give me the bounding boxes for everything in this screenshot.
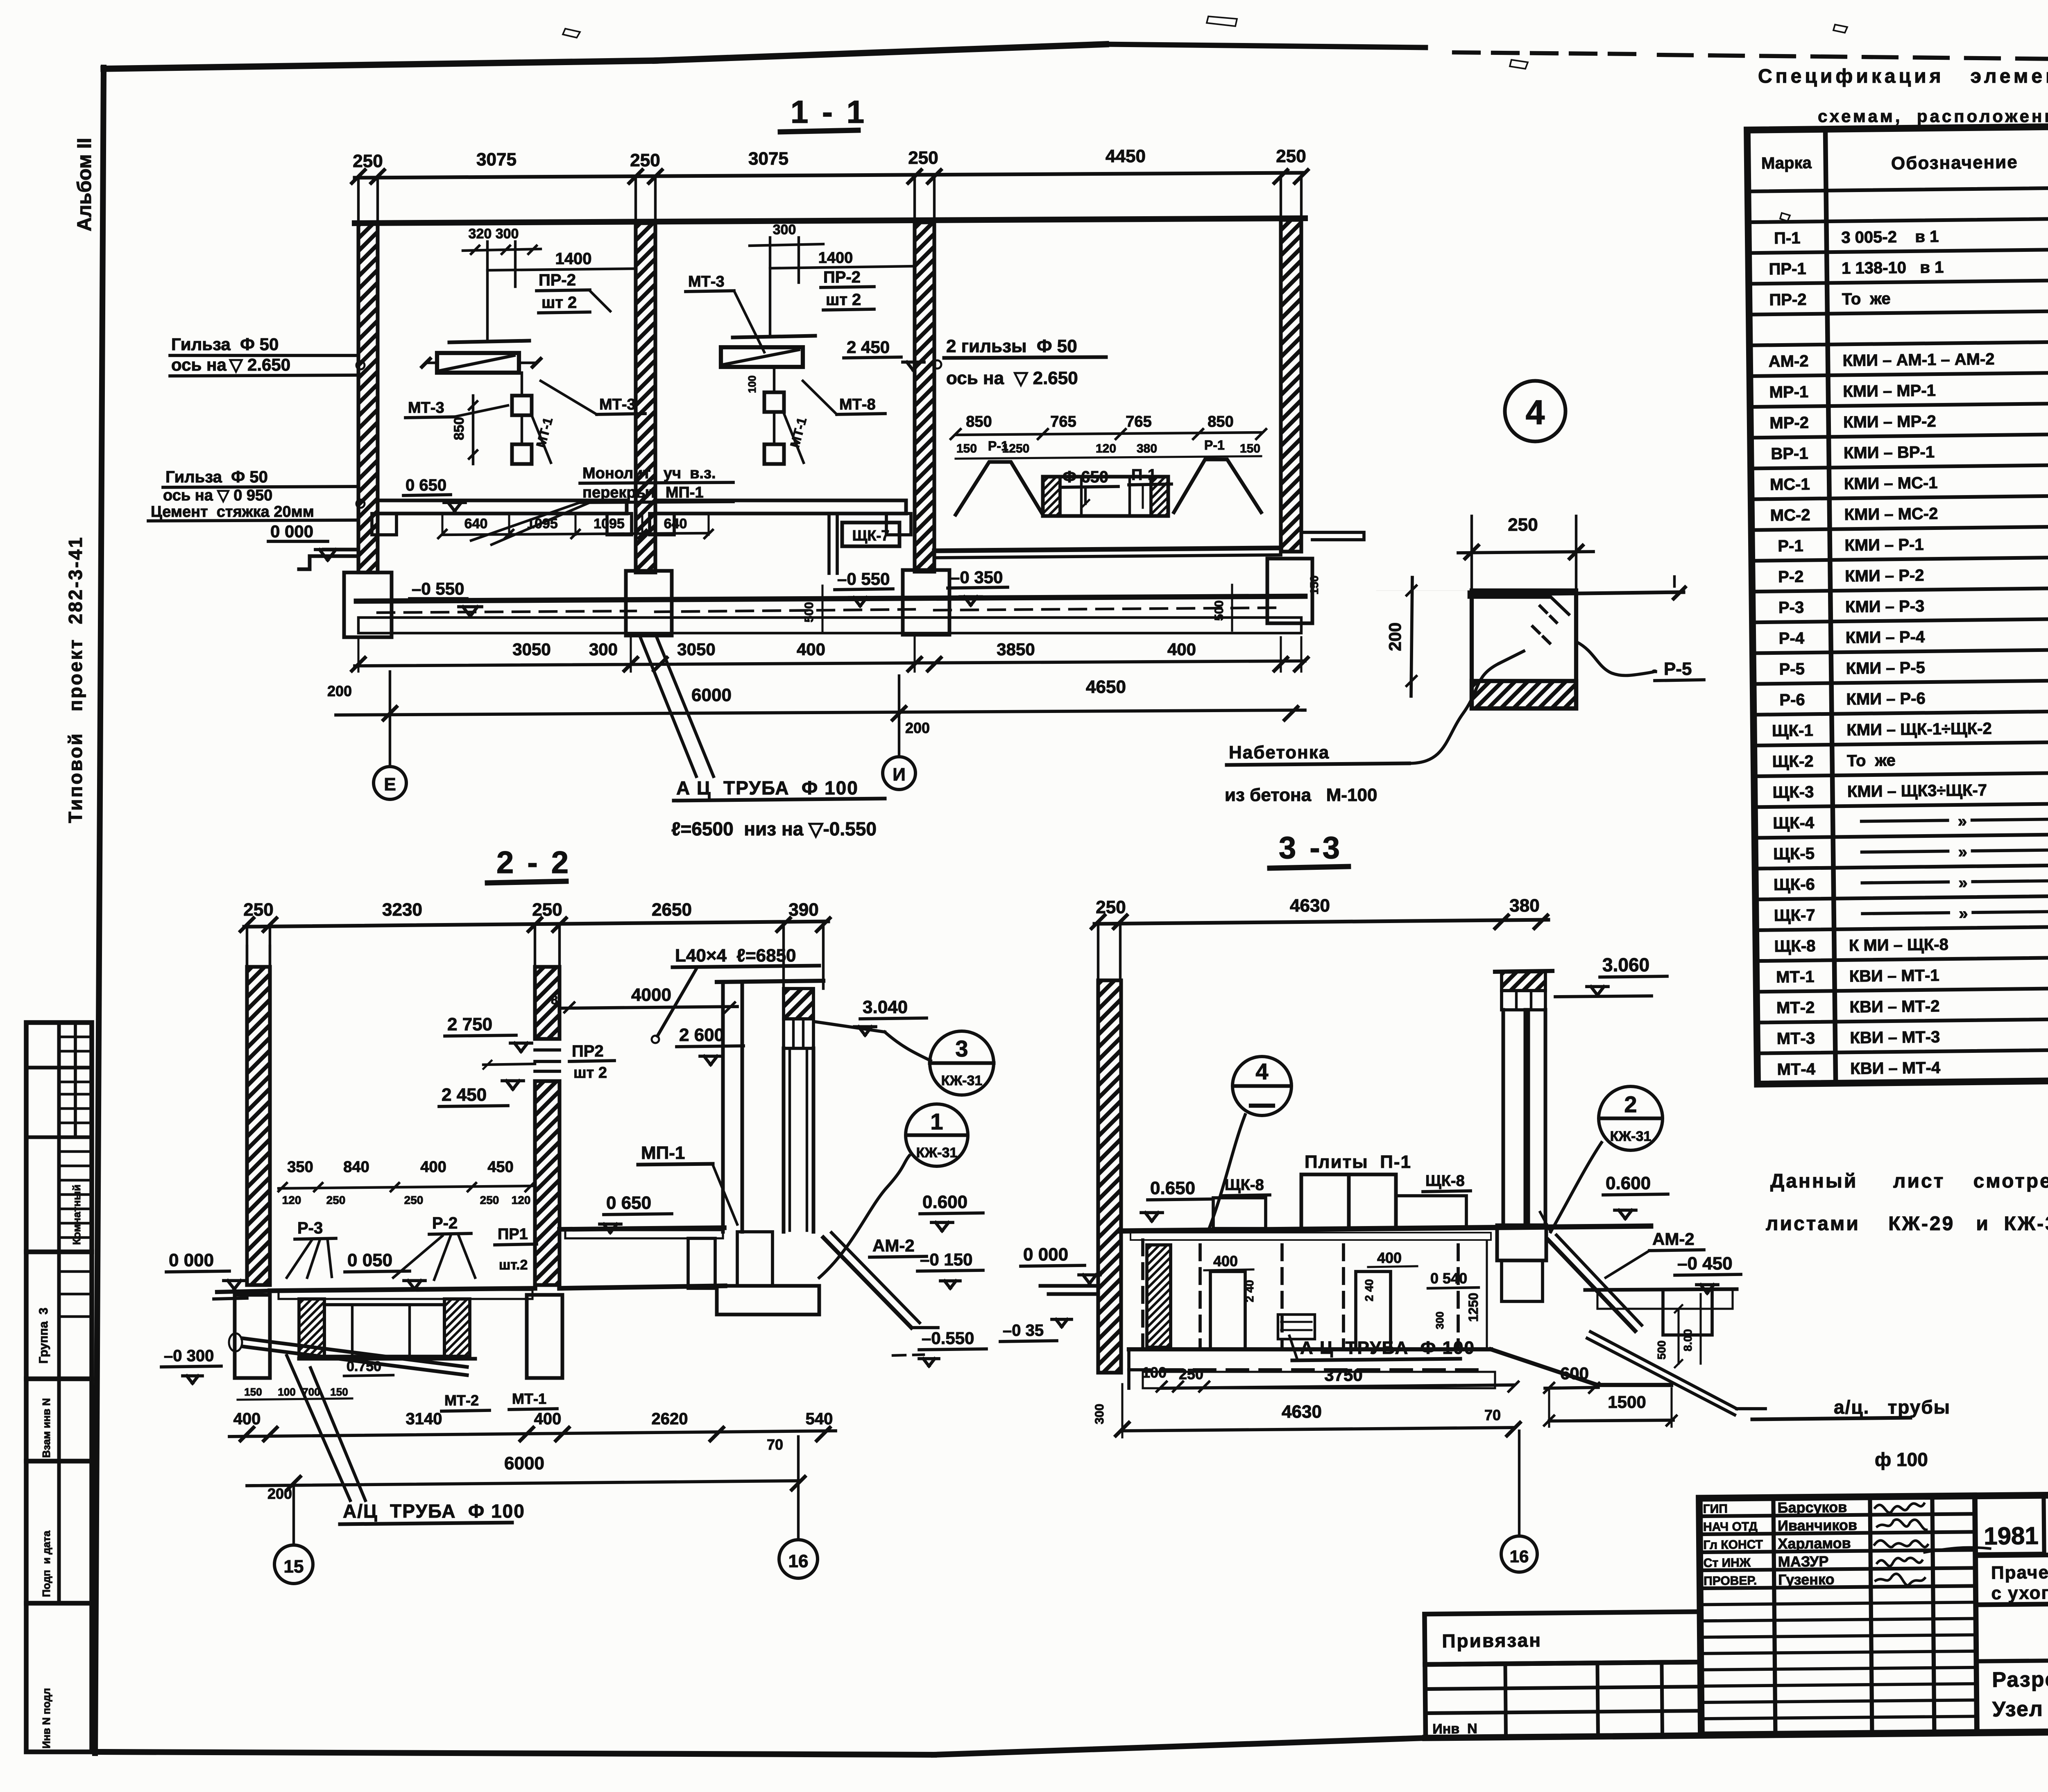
svg-text:0 650: 0 650 [606,1193,651,1213]
section 1-1 foundation pier wall E [344,572,392,637]
svg-text:Р-1: Р-1 [988,439,1008,453]
svg-text:ЩК-2: ЩК-2 [1772,752,1814,771]
svg-text:Узел 4.: Узел 4. [1992,1697,2048,1722]
section 3-3 top dimension line [1094,920,1548,924]
svg-text:3850: 3850 [997,640,1035,659]
svg-text:300: 300 [773,222,796,238]
svg-text:КМИ – МР-1: КМИ – МР-1 [1843,382,1936,400]
section 1-1 axis circle И [883,757,915,790]
svg-text:–0 350: –0 350 [950,568,1003,587]
svg-text:Гузенко: Гузенко [1778,1571,1835,1588]
svg-text:из бетона М-100: из бетона М-100 [1225,785,1377,805]
svg-text:2 40: 2 40 [1363,1279,1375,1302]
section 3-3 channel interior walls [1141,1240,1144,1349]
svg-text:0 050: 0 050 [347,1250,392,1270]
section 1-1 wall 3 (hatched) [915,222,934,572]
section 1-1 wall 2 (hatched) [636,223,655,572]
svg-text:схемам, расположенным на ли: схемам, расположенным на листах кж-2а-кж… [1818,106,2048,126]
section 1-1 right bay tent frame left (Р-1) [956,462,1043,515]
node 4 corner hatch dashes [1548,595,1569,614]
section 1-1 bay1 dims 320 300 above lintel [486,242,489,341]
svg-text:640: 640 [464,516,488,532]
svg-text:КВИ – МТ-4: КВИ – МТ-4 [1850,1059,1941,1078]
svg-text:15: 15 [284,1557,304,1577]
svg-text:250: 250 [353,151,383,171]
svg-text:400: 400 [1167,640,1196,659]
section 1-1 foundation pier right wall [1267,559,1312,623]
section 2-2 vent shaft right duct [782,1048,786,1232]
title block group [1423,1492,2048,1738]
svg-text:3230: 3230 [382,900,422,920]
svg-text:4630: 4630 [1282,1402,1322,1422]
svg-text:»: » [1959,905,1968,923]
svg-text:листами КЖ-29 и КЖ-31 ÷: листами КЖ-29 и КЖ-31 ÷ КЖ-33 [1766,1213,2048,1235]
title block signatures scribbles [1875,1503,1924,1513]
svg-text:320 300: 320 300 [469,226,519,242]
svg-text:Комнатный: Комнатный [70,1185,83,1245]
section 1-1 bay2 dim 1400 [770,266,915,268]
svg-text:ось на ▽ 2.650: ось на ▽ 2.650 [946,368,1078,388]
svg-text:250: 250 [1276,146,1306,166]
svg-text:3.060: 3.060 [1602,954,1649,975]
svg-text:Разрезы 1-1 ÷ 3-3.: Разрезы 1-1 ÷ 3-3. [1992,1666,2048,1692]
svg-text:Р-1: Р-1 [1778,537,1803,555]
svg-text:МП-1: МП-1 [641,1143,685,1163]
node 4 square detail body [1472,591,1576,708]
svg-text:И: И [893,765,906,785]
svg-text:70: 70 [767,1436,783,1453]
section 2-2 vent shaft grid squares [784,1019,813,1048]
svg-text:КМИ – Р-5: КМИ – Р-5 [1846,659,1925,678]
section 3-3 plates П-1 rectangles [1301,1174,1349,1229]
section 1-1 right bay tent frame right (Р-1) [1174,459,1261,512]
sheet border frame bottom [95,1752,934,1755]
section 3-3 pipes diagonal lines to label [1590,1332,1737,1409]
svg-text:2: 2 [1624,1091,1637,1117]
svg-text:А Ц ТРУБА Ф 100: А Ц ТРУБА Ф 100 [676,777,859,799]
node 4 dim 250 [1458,552,1593,553]
svg-text:Взам инв N: Взам инв N [40,1398,52,1458]
svg-text:МР-2: МР-2 [1769,414,1809,432]
section 1-1 wall right (hatched) [1281,220,1301,552]
svg-text:390: 390 [788,900,818,920]
svg-text:4630: 4630 [1290,896,1330,916]
section 2-2 wall left (hatched) [247,967,270,1285]
svg-text:КМИ – Р-1: КМИ – Р-1 [1844,536,1924,554]
svg-text:450: 450 [487,1158,513,1176]
svg-text:Инв N подл: Инв N подл [40,1688,52,1749]
title block signature table columns [1773,1498,1775,1734]
svg-text:250: 250 [480,1194,499,1206]
svg-text:ЩК-5: ЩК-5 [1773,845,1815,863]
svg-text:»: » [1958,874,1968,892]
svg-text:МТ-3: МТ-3 [408,399,444,416]
svg-text:600: 600 [1560,1364,1589,1383]
svg-text:100: 100 [1142,1364,1167,1381]
svg-text:МТ-8: МТ-8 [839,396,876,413]
svg-text:МТ-3: МТ-3 [688,273,725,290]
svg-text:500: 500 [802,602,816,622]
svg-text:1095: 1095 [594,516,625,532]
svg-text:–0 300: –0 300 [164,1347,214,1365]
svg-text:»: » [1958,843,1967,861]
section 1-1 bay2 lintel ПР-2 assembly [733,336,815,337]
svg-text:300: 300 [1093,1404,1106,1424]
svg-text:ЩК-1: ЩК-1 [1772,722,1813,740]
svg-text:0 000: 0 000 [1023,1244,1068,1265]
svg-text:КМИ – ЩК-1÷ЩК-2: КМИ – ЩК-1÷ЩК-2 [1846,720,1992,739]
svg-text:8.00: 8.00 [1681,1329,1694,1352]
section 1-1 bay1 lintel ПР-2 assembly [449,341,529,342]
svg-text:400: 400 [420,1158,446,1176]
section 2-2 vent shaft right duct hatched head [784,989,813,1019]
section 2-2 vent shaft left duct [721,982,725,1232]
section 1-1 bottom dim row2: 6000 4650 [336,710,1305,715]
svg-text:850: 850 [966,413,992,430]
svg-text:ПРОВЕР.: ПРОВЕР. [1704,1574,1757,1588]
section 1-1 right bay corridor floor [934,548,1281,551]
svg-text:МТ-3: МТ-3 [599,396,636,413]
section 2-2 wall middle lower (hatched) [535,1081,560,1285]
svg-text:ЩК-7: ЩК-7 [1774,906,1815,925]
svg-text:с ухого белья в сме: с ухого белья в смену [1991,1581,2048,1603]
svg-text:3050: 3050 [677,640,715,659]
svg-text:765: 765 [1126,413,1151,430]
svg-text:КМИ – Р-2: КМИ – Р-2 [1845,566,1924,585]
svg-text:ЩК-7: ЩК-7 [852,527,890,544]
svg-text:250: 250 [1508,515,1538,535]
section 1-1 foundation pier wall 3 [903,570,949,635]
svg-text:70: 70 [1484,1407,1501,1423]
title block bottom-left sub table [1425,1662,1701,1738]
svg-text:КМИ – Р-4: КМИ – Р-4 [1846,628,1925,647]
svg-text:1: 1 [930,1109,943,1134]
svg-text:2650: 2650 [652,900,692,920]
svg-text:НАЧ ОТД: НАЧ ОТД [1703,1520,1758,1534]
svg-text:250: 250 [908,148,938,168]
svg-text:300: 300 [1434,1312,1446,1329]
svg-text:Гильза Ф 50: Гильза Ф 50 [171,335,279,354]
section 3-3 base slab [1129,1347,1491,1351]
svg-text:ось на: ось на [171,355,227,374]
section 1-1 bay2 panel ЩК-7 box [842,523,899,546]
svg-text:Ф 650: Ф 650 [1063,468,1108,486]
svg-text:2 450: 2 450 [442,1085,487,1105]
section 1-1 right bay channel box П-1 [1043,477,1168,516]
section 1-1 axis circle Е [374,767,406,799]
svg-text:–0 450: –0 450 [1677,1253,1733,1274]
svg-text:4000: 4000 [631,985,671,1005]
svg-text:380: 380 [1509,896,1539,916]
svg-text:Барсуков: Барсуков [1777,1499,1847,1516]
svg-text:540: 540 [806,1410,833,1428]
svg-text:765: 765 [1050,413,1076,430]
section 1-1 bay1 floor slab МП-1 (speckled) [378,500,627,514]
svg-text:350: 350 [287,1158,313,1176]
section 3-3 main slab line [1120,1226,1651,1231]
section 2-2 underfloor pit walls [299,1299,324,1356]
svg-text:Р-3: Р-3 [297,1219,323,1237]
svg-text:Гл КОНСТ: Гл КОНСТ [1703,1538,1763,1552]
svg-text:Альбом II: Альбом II [74,138,95,231]
svg-text:500: 500 [1655,1340,1668,1360]
svg-text:2620: 2620 [652,1410,688,1428]
section 2-2 dim row 400 3140 400 2620 540 [229,1431,836,1437]
section 3-3 chimney ducts [1502,1010,1505,1225]
svg-text:4450: 4450 [1106,146,1146,166]
node 4 top line extension right with tick [1547,592,1683,594]
section 2-2 dim 4000 [560,1007,737,1008]
svg-text:К МИ – ЩК-8: К МИ – ЩК-8 [1849,936,1948,955]
svg-text:Р-1: Р-1 [1204,438,1225,453]
svg-text:КМИ – Р-6: КМИ – Р-6 [1846,690,1926,708]
svg-text:1500: 1500 [1608,1392,1646,1412]
section 2-2 axis circle 16 [779,1540,818,1578]
section 1-1 foundation pier wall 2 [626,571,672,636]
svg-text:1 - 1: 1 - 1 [791,94,867,130]
svg-text:АМ-2: АМ-2 [1652,1229,1695,1249]
svg-text:–0 150: –0 150 [920,1250,972,1269]
svg-text:250: 250 [404,1194,424,1206]
svg-text:ЩК-8: ЩК-8 [1774,937,1815,955]
svg-text:3050: 3050 [512,640,551,659]
svg-text:250: 250 [1179,1366,1203,1382]
title block signature rows [1699,1514,1975,1516]
sheet border frame top [104,61,655,69]
svg-text:АМ-2: АМ-2 [1768,352,1808,371]
title block Привязан box [1425,1612,1701,1665]
section 2-2 bubble 3 КЖ-31 [930,1031,994,1095]
section 1-1 right bay dim row 850 765 765 850 [956,432,1261,435]
svg-text:1400: 1400 [555,250,592,268]
section 1-1 bay1 under-slab dim 640 1095 1095 640 [442,533,709,535]
section 1-1 ground hatch band [358,618,1301,633]
svg-text:ВР-1: ВР-1 [1771,444,1808,463]
title block outer box [1699,1492,2048,1735]
svg-text:1095: 1095 [527,516,558,532]
svg-text:380: 380 [1137,442,1157,455]
svg-text:120: 120 [282,1194,301,1206]
scan specks [563,16,1847,69]
svg-text:16: 16 [1510,1547,1529,1566]
title block line under name [1976,1601,2048,1605]
svg-text:0 000: 0 000 [270,522,313,541]
svg-text:МТ-2: МТ-2 [444,1392,479,1409]
svg-text:0.600: 0.600 [1606,1173,1651,1193]
svg-text:МТ-1: МТ-1 [512,1390,546,1407]
svg-text:КЖ-31: КЖ-31 [916,1145,958,1161]
svg-text:шт.2: шт.2 [499,1257,528,1273]
svg-text:100: 100 [278,1386,295,1398]
svg-text:КМИ – МР-2: КМИ – МР-2 [1843,412,1936,431]
section 3-3 bubble 4 (node marker) [1232,1057,1291,1115]
svg-text:шт 2: шт 2 [826,291,861,309]
section 2-2 pipe sloped in pit [242,1338,467,1367]
svg-text:120: 120 [512,1194,531,1206]
svg-text:Обозначение: Обозначение [1891,152,2018,173]
section 2-2 foundation pier left [235,1295,270,1378]
section 1-1 top dimension line [355,173,1303,178]
svg-text:2 40: 2 40 [1243,1280,1256,1303]
section 2-2 wall middle lintel zone [535,1048,560,1052]
svg-text:2 гильзы Ф 50: 2 гильзы Ф 50 [946,336,1077,356]
svg-text:КМИ – Р-3: КМИ – Р-3 [1845,597,1925,616]
svg-text:Р-5: Р-5 [1664,659,1692,679]
svg-text:Инв N: Инв N [1432,1721,1477,1737]
svg-text:Р-3: Р-3 [1778,598,1804,617]
svg-text:ф 100: ф 100 [1875,1449,1928,1470]
svg-text:Спецификация элементов к м: Спецификация элементов к металлоизм [1758,66,2048,87]
svg-text:4650: 4650 [1086,677,1126,697]
section 3-3 door opening left [1210,1272,1245,1349]
section 3-3 pit right side [1663,1290,1712,1335]
svg-text:Р-4: Р-4 [1779,629,1805,648]
svg-text:КМИ – ЩК3÷ЩК-7: КМИ – ЩК3÷ЩК-7 [1847,781,1987,801]
svg-text:Типовой проект 282-3-41: Типовой проект 282-3-41 [65,536,86,823]
svg-text:Подп и дата: Подп и дата [40,1530,52,1597]
section 2-2 bubble 1 КЖ-31 [906,1104,968,1166]
svg-text:150: 150 [1308,575,1321,595]
svg-text:Ст ИНЖ: Ст ИНЖ [1704,1556,1751,1570]
svg-text:ГИП: ГИП [1703,1502,1728,1516]
svg-text:ПР1: ПР1 [498,1226,528,1243]
node 4 bubble circle [1505,381,1565,441]
svg-text:ПР-2: ПР-2 [823,268,861,286]
svg-text:Набетонка: Набетонка [1229,742,1330,763]
title block horizontal line under project row [1976,1552,2048,1556]
svg-text:ЩК-4: ЩК-4 [1773,814,1815,832]
svg-text:6000: 6000 [504,1453,544,1473]
section 3-3 bubble 2 КЖ-31 [1599,1086,1663,1150]
svg-text:Плиты П-1: Плиты П-1 [1305,1152,1411,1172]
svg-text:400: 400 [1377,1249,1402,1266]
section 1-1 bay2 anchor squares [764,392,784,412]
node 4 label Р-5 with leader [1577,642,1656,676]
svg-text:КВИ – МТ-2: КВИ – МТ-2 [1849,997,1939,1016]
svg-text:3075: 3075 [476,149,517,170]
section 3-3 wall left (hatched) [1098,980,1121,1373]
svg-text:1250: 1250 [1466,1293,1481,1322]
svg-text:Р-2: Р-2 [432,1214,458,1232]
section 3-3 small hatch window [1278,1315,1315,1339]
svg-text:1400: 1400 [818,249,853,267]
svg-text:1 138-10 в 1: 1 138-10 в 1 [1842,258,1944,278]
svg-text:0 000: 0 000 [169,1250,214,1270]
svg-text:840: 840 [343,1158,369,1176]
svg-text:400: 400 [233,1410,261,1428]
svg-text:КМИ – ВР-1: КМИ – ВР-1 [1844,443,1935,462]
svg-text:То же: То же [1847,751,1896,770]
svg-text:4: 4 [1526,393,1545,432]
svg-text:То же: То же [1842,290,1891,308]
svg-text:Р-2: Р-2 [1778,568,1804,586]
svg-text:3 005-2 в 1: 3 005-2 в 1 [1841,228,1939,247]
svg-text:250: 250 [243,900,273,920]
section 2-2 ladder АМ-2 diagonal [823,1238,911,1328]
section 1-1 right outside platform [1301,532,1364,540]
svg-text:ПР-2: ПР-2 [1769,291,1806,309]
svg-text:КМИ – МС-1: КМИ – МС-1 [1844,474,1938,493]
svg-text:150: 150 [330,1386,348,1398]
section 2-2 shaft footing [717,1286,819,1315]
svg-text:Харламов: Харламов [1778,1534,1851,1552]
svg-text:3140: 3140 [406,1410,442,1428]
svg-text:шт 2: шт 2 [541,294,577,312]
section 1-1 wall E (hatched) [358,223,378,572]
svg-text:3: 3 [955,1036,968,1061]
svg-text:–0 35: –0 35 [1003,1321,1044,1339]
svg-text:КМИ – АМ-1 – АМ-2: КМИ – АМ-1 – АМ-2 [1842,350,1994,370]
svg-text:400: 400 [797,640,825,659]
svg-text:ПР-1: ПР-1 [1769,260,1806,278]
svg-text:ЩК-8: ЩК-8 [1225,1177,1264,1194]
svg-text:400: 400 [534,1410,562,1428]
section 3-3 right footing under chimney [1497,1225,1546,1260]
section 2-2 floor slab line [217,1291,270,1292]
node 4 dim 200 vertical [1411,577,1412,696]
svg-text:Данный лист смотреть: Данный лист смотреть совместно с [1770,1170,2048,1192]
section 3-3 door opening right [1356,1272,1391,1349]
svg-text:640: 640 [664,516,687,532]
section 2-2 foundation pier middle [527,1295,562,1378]
svg-text:200: 200 [327,683,352,699]
svg-text:П-1: П-1 [1774,229,1801,247]
svg-text:0 540: 0 540 [1430,1270,1467,1287]
svg-text:400: 400 [1213,1253,1238,1269]
svg-text:МТ-4: МТ-4 [1777,1060,1816,1079]
section 2-2 upper slab МП-1 at 0.650 [560,1228,724,1229]
svg-text:–0 550: –0 550 [412,579,464,598]
section 1-1 bottom dim row1: 3050 300 3050 400 3850 400 [355,661,1305,666]
svg-text:А/Ц ТРУБА Ф 100: А/Ц ТРУБА Ф 100 [343,1500,525,1522]
svg-text:Прачечная производительнос: Прачечная производительностью 5т [1991,1559,2048,1583]
section 1-1 bay1 vertical dim 850 [472,396,474,464]
svg-text:250: 250 [532,900,562,920]
svg-text:2 450: 2 450 [847,337,890,357]
svg-text:МТ-1: МТ-1 [1776,968,1815,986]
section 2-2 dim row 350 840 400 450 [279,1186,532,1188]
section 2-2 support column under slab [688,1238,715,1288]
svg-text:250: 250 [326,1194,346,1206]
svg-text:Гильза Ф 50: Гильза Ф 50 [165,468,268,486]
svg-text:3750: 3750 [1324,1365,1362,1385]
svg-text:МТ-3: МТ-3 [1777,1029,1815,1048]
section 1-1 ceiling line [355,218,1305,223]
svg-text:–0 550: –0 550 [837,569,890,588]
section 1-1 under-floor dashed channel [378,611,636,613]
svg-text:250: 250 [1096,897,1126,917]
svg-text:Монолит уч в.з.: Монолит уч в.з. [582,465,716,482]
svg-text:Р-5: Р-5 [1779,660,1805,679]
svg-text:Е: Е [384,774,396,794]
svg-text:МР-1: МР-1 [1769,383,1808,401]
svg-text:ℓ=6500 низ на ▽-0.550: ℓ=6500 низ на ▽-0.550 [671,818,877,839]
svg-text:3 -3: 3 -3 [1279,830,1342,865]
svg-text:КВИ – МТ-3: КВИ – МТ-3 [1850,1028,1940,1047]
svg-text:КЖ-31: КЖ-31 [941,1073,983,1088]
node 4 leader from Набетонка into square [1499,651,1524,663]
svg-text:150: 150 [244,1386,262,1398]
svg-text:шт 2: шт 2 [573,1064,607,1082]
svg-text:150: 150 [1240,442,1260,455]
title block 1981 box [1976,1554,2044,1554]
svg-text:ЩК-6: ЩК-6 [1774,876,1815,894]
svg-text:1981: 1981 [1984,1522,2039,1550]
svg-text:Иванчиков: Иванчиков [1778,1516,1857,1534]
svg-text:100: 100 [746,376,758,393]
svg-text:120: 120 [1096,442,1116,455]
svg-text:4: 4 [1255,1059,1268,1084]
